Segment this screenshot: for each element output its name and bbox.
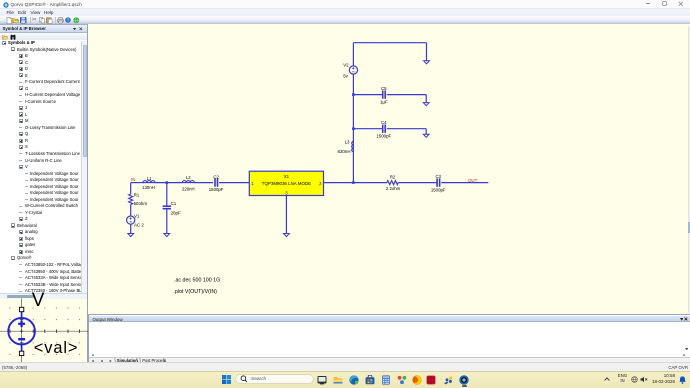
inductor L1 <box>143 181 155 183</box>
ground <box>128 234 134 237</box>
value label AC 2 <box>134 222 144 227</box>
ground <box>284 234 290 237</box>
inductor L2 <box>182 181 194 183</box>
svg-text:.ac dec 500 100 1G: .ac dec 500 100 1G <box>174 277 220 283</box>
svg-text:C2: C2 <box>213 175 219 180</box>
svg-text:C5: C5 <box>381 86 387 91</box>
svg-text:IN: IN <box>131 177 135 182</box>
wire <box>324 182 387 184</box>
junction node C5 <box>352 93 355 96</box>
svg-text:1500pF: 1500pF <box>209 187 224 192</box>
taskbar <box>0 371 690 388</box>
svg-text:TQP3M9036 LNA MODE: TQP3M9036 LNA MODE <box>262 181 311 186</box>
wire <box>352 74 354 141</box>
pin 1 <box>251 181 254 186</box>
svg-text:130nH: 130nH <box>142 185 155 190</box>
node IN <box>131 177 135 182</box>
value label C2 <box>213 175 219 180</box>
value label C3 <box>435 174 441 179</box>
ground <box>164 234 170 237</box>
svg-text:L1: L1 <box>147 176 152 181</box>
svg-text:2.2ohm: 2.2ohm <box>386 186 401 191</box>
value label C1 <box>171 201 177 206</box>
value label C5 <box>381 86 387 91</box>
value label 20pF <box>171 210 181 215</box>
capacitor C3 <box>437 178 440 186</box>
wire <box>425 129 427 135</box>
directive .plot V(OUT)/V(IN) <box>173 289 217 295</box>
svg-text:AC 2: AC 2 <box>134 222 144 227</box>
wire <box>353 128 382 130</box>
wire <box>387 94 426 96</box>
voltage source symbol preview <box>8 312 35 352</box>
capacitor C4 <box>383 125 386 133</box>
wire <box>166 183 168 206</box>
node OUT <box>468 178 478 183</box>
wire <box>353 94 382 96</box>
value label 820nH <box>338 149 351 154</box>
wire <box>352 152 354 183</box>
wire <box>426 43 428 61</box>
svg-text:L3: L3 <box>345 139 350 144</box>
svg-text:820nH: 820nH <box>338 149 351 154</box>
svg-text:1µF: 1µF <box>380 100 388 105</box>
svg-text:OUT: OUT <box>468 178 478 183</box>
capacitor C2 <box>215 178 218 186</box>
menu bar <box>0 9 690 16</box>
svg-text:L2: L2 <box>186 175 191 180</box>
wire <box>387 128 426 130</box>
svg-text:C1: C1 <box>171 201 177 206</box>
wire <box>353 42 426 44</box>
preview label &lt;val&gt; <box>34 339 79 357</box>
svg-text:V2: V2 <box>343 62 349 67</box>
directive .ac dec 500 100 1G <box>174 277 220 283</box>
value label C4 <box>381 120 387 125</box>
left dock panel <box>0 25 88 362</box>
svg-text:20pF: 20pF <box>171 210 181 215</box>
svg-text:50ohm: 50ohm <box>134 201 148 206</box>
resistor R2 <box>387 181 398 185</box>
schematic area <box>88 24 690 313</box>
svg-text:1500pF: 1500pF <box>376 133 391 138</box>
svg-text:R1: R1 <box>134 193 140 198</box>
wire <box>130 183 132 194</box>
svg-text:X1: X1 <box>284 174 290 179</box>
value label V1 <box>134 213 140 218</box>
wire <box>352 43 354 66</box>
svg-text:V1: V1 <box>134 213 140 218</box>
value label 220nH <box>182 187 195 192</box>
value label R2 <box>390 175 396 180</box>
window title bar <box>0 0 690 9</box>
wire <box>130 224 132 233</box>
voltage source V1 <box>127 216 135 224</box>
svg-text:220nH: 220nH <box>182 187 195 192</box>
toolbar <box>0 16 690 27</box>
value label V2 <box>343 62 349 67</box>
svg-text:C3: C3 <box>435 174 441 179</box>
terminal squares <box>19 307 23 355</box>
wire <box>425 95 427 103</box>
inductor L3 <box>352 142 354 152</box>
value label 2.2ohm <box>386 186 401 191</box>
ground <box>424 61 430 64</box>
wire <box>155 182 182 184</box>
value label 1500pF (C3) <box>431 188 446 193</box>
ground <box>423 103 429 106</box>
svg-text:R2: R2 <box>390 175 396 180</box>
value label 5v <box>343 73 348 78</box>
value label 1µF <box>380 100 388 105</box>
junction node L3/R2 <box>352 181 355 184</box>
capacitor C5 <box>383 90 386 98</box>
resistor R1 <box>129 194 133 205</box>
value label 1500pF (C4) <box>376 133 391 138</box>
junction node C1 <box>166 181 169 184</box>
junction node C4 <box>352 127 355 130</box>
wire <box>285 196 287 234</box>
pin 3 <box>285 190 288 195</box>
svg-text:<val>: <val> <box>34 339 79 357</box>
value label 50ohm <box>134 201 148 206</box>
value label R1 <box>134 193 140 198</box>
value label L1 <box>147 176 152 181</box>
svg-text:.plot V(OUT)/V(IN): .plot V(OUT)/V(IN) <box>173 289 217 295</box>
wire <box>130 205 132 217</box>
ground <box>423 134 429 137</box>
value label 1500pF <box>209 187 224 192</box>
op-amp X1 TQP3M9036 LNA MODE <box>249 171 323 195</box>
value label L2 <box>186 175 191 180</box>
value label 130nH <box>142 185 155 190</box>
capacitor C1 <box>163 206 171 209</box>
output window <box>88 314 690 363</box>
pin 2 <box>319 181 322 186</box>
wire <box>219 182 249 184</box>
wire <box>131 182 144 184</box>
voltage source V2 <box>349 66 357 74</box>
wire <box>194 182 213 184</box>
svg-text:1500pF: 1500pF <box>431 188 446 193</box>
svg-text:5v: 5v <box>343 73 348 78</box>
wire <box>398 182 437 184</box>
status bar <box>0 362 690 371</box>
svg-text:C4: C4 <box>381 120 387 125</box>
wire <box>441 182 488 184</box>
svg-text:V: V <box>32 292 45 311</box>
value label L3 <box>345 139 350 144</box>
wire <box>166 209 168 234</box>
preview label V <box>32 290 45 311</box>
